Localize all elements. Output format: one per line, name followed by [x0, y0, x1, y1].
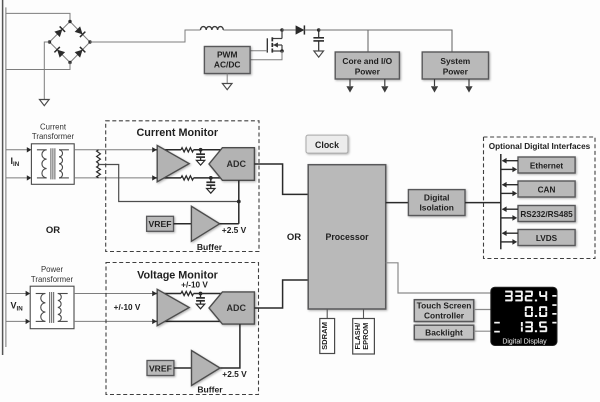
transistor Q1 MOSFET [281, 30, 283, 39]
capacitor C1 [318, 30, 320, 37]
svg-text:Buffer: Buffer [197, 242, 223, 252]
svg-text:Power: Power [41, 265, 64, 274]
digital display panel [491, 287, 557, 345]
wire R1 to ADC [194, 149, 224, 151]
dashed box Current Monitor [106, 121, 259, 252]
wire v-amp input top [152, 291, 157, 296]
burden resistor upper half [97, 150, 101, 163]
wire I_IN bottom [6, 177, 28, 179]
wire processor to display [386, 263, 491, 293]
node at MOSFET drain [280, 28, 284, 32]
svg-text:LVDS: LVDS [536, 234, 558, 243]
wire VREF1 to buffer [174, 223, 192, 225]
wire to Core and IO Power [367, 30, 369, 52]
ground below PWM [226, 74, 228, 84]
bridge rectifier frame [50, 22, 91, 63]
wire node to diode [282, 29, 296, 31]
System power output arrow 2 [468, 79, 470, 86]
node after R1 [199, 148, 203, 152]
svg-text:Current: Current [40, 123, 67, 132]
wire RS232/RS485 to bus upper [503, 208, 519, 210]
svg-text:+2.5 V: +2.5 V [222, 369, 247, 379]
power transformer T2 [30, 286, 74, 329]
buffer amplifier 2 [192, 351, 221, 386]
svg-text:VREF: VREF [149, 219, 172, 229]
processor U3 [308, 165, 386, 309]
bridge diode D3 [57, 50, 65, 58]
svg-text:SDRAM: SDRAM [320, 322, 329, 350]
AC input bus line 1 [2, 0, 4, 355]
resistor R3 [181, 291, 194, 295]
svg-text:+2.5 V: +2.5 V [222, 225, 247, 235]
bridge node top [68, 20, 71, 23]
diode D5 [296, 25, 305, 34]
block LVDS [518, 230, 575, 246]
node at MOSFET source [280, 49, 284, 53]
ground below bridge [40, 100, 50, 106]
svg-text:Touch Screen: Touch Screen [417, 301, 472, 311]
block Clock [306, 135, 348, 153]
svg-text:Clock: Clock [315, 140, 339, 150]
block FLASH/EPROM [353, 319, 375, 355]
wire VREF2 to buffer [174, 367, 192, 369]
ground below capacitor C1 [314, 51, 324, 57]
display reading 13.5 [540, 321, 547, 323]
AC input bus line 2 [5, 7, 7, 347]
resistor R1 [181, 148, 194, 152]
wire LVDS to bus lower [501, 241, 514, 243]
svg-text:CAN: CAN [538, 185, 556, 194]
wire bridge bottom to bus [6, 63, 70, 70]
block SDRAM [320, 319, 335, 354]
current transformer T1 [31, 144, 74, 185]
capacitor C2 to ground [200, 150, 202, 154]
wire ADC1 to vref node [238, 180, 240, 224]
op-amp A2 differential amplifier [157, 289, 189, 325]
wire amp input top [152, 147, 157, 152]
svg-text:ADC: ADC [227, 303, 247, 313]
wire gate to PWM [250, 50, 267, 52]
wire V_IN bottom [6, 320, 26, 322]
svg-text:System: System [440, 56, 470, 66]
wire processor to digital isolation [386, 202, 409, 204]
svg-text:PWM: PWM [217, 49, 237, 59]
wire digital isolation to interface bus [465, 202, 501, 204]
burden resistor lower half [97, 166, 101, 178]
block System Power [422, 52, 488, 79]
block Touch Screen Controller [414, 300, 473, 322]
wire CAN to bus lower [501, 192, 514, 194]
block PWM AC/DC [204, 47, 250, 74]
Core power output arrow 2 [384, 79, 386, 86]
op-amp A1 differential amplifier [157, 145, 189, 181]
svg-text:Isolation: Isolation [419, 202, 453, 212]
svg-text:Power: Power [355, 66, 381, 76]
wire I_IN top [6, 149, 28, 151]
capacitor C3 to ground [210, 178, 212, 182]
block Backlight [414, 325, 473, 339]
wire bridge right node to inductor [90, 30, 201, 42]
wire LVDS to bus upper [503, 232, 519, 234]
wire output node to power blocks [319, 30, 452, 52]
ADC U2 [209, 292, 254, 324]
wire ADC2 to vref node 2 [220, 324, 240, 368]
wire backlight to display [474, 330, 491, 332]
bridge node right [88, 40, 91, 43]
svg-text:EPROM: EPROM [361, 323, 370, 350]
wire resistor tap [98, 163, 100, 166]
svg-text:Core and I/O: Core and I/O [342, 56, 392, 66]
svg-text:Optional Digital Interfaces: Optional Digital Interfaces [489, 142, 591, 151]
block RS232/RS485 [518, 206, 575, 222]
block Ethernet [518, 157, 575, 173]
interface bus [500, 154, 502, 249]
wire CAN to bus upper [503, 184, 519, 186]
node after R2 [209, 176, 213, 180]
wire transformer output bottom [74, 177, 152, 179]
svg-text:Processor: Processor [325, 232, 369, 242]
wire V_IN top [6, 293, 26, 295]
svg-text:Power: Power [443, 66, 469, 76]
wire R3 to ADC [194, 293, 226, 295]
display annunciator dashes right [552, 295, 556, 297]
ADC U1 [209, 148, 254, 181]
wire amp input bottom [152, 175, 157, 180]
svg-text:AC/DC: AC/DC [214, 60, 241, 70]
block CAN [518, 181, 575, 197]
wire bridge left node to ground [44, 42, 49, 100]
bridge diode D1 [54, 29, 62, 37]
display annunciator dashes left [494, 322, 500, 324]
wire source to PWM [250, 51, 282, 60]
wire v-amp input bottom [152, 319, 157, 324]
output node [317, 28, 321, 32]
wire R2 to ADC [194, 177, 224, 179]
resistor R2 [181, 176, 194, 180]
wire power transformer out top [74, 293, 152, 295]
display reading 332.4 [539, 291, 541, 295]
Core power output arrow 1 [349, 79, 351, 86]
wire ADC1 output to processor [254, 164, 308, 194]
wire processor to FLASH [363, 309, 365, 319]
wire ADC2 output to processor [254, 280, 308, 308]
bridge node bottom [68, 61, 71, 64]
wire inductor to switch node [223, 29, 282, 31]
inductor L1 [201, 27, 224, 30]
node vref current [237, 200, 241, 204]
svg-text:ADC: ADC [227, 159, 247, 169]
block Digital Isolation [408, 190, 465, 216]
wire touch screen controller to display [474, 309, 491, 311]
node after R3 [199, 292, 203, 296]
svg-text:VREF: VREF [149, 363, 172, 373]
block Core and I/O Power [335, 52, 399, 79]
wire processor to SDRAM [326, 309, 328, 319]
svg-text:Current Monitor: Current Monitor [137, 127, 219, 139]
wire bus to bridge top [6, 13, 70, 21]
block VREF 2 [147, 361, 174, 376]
buffer amplifier 1 [191, 206, 219, 241]
svg-text:Transformer: Transformer [31, 275, 74, 284]
wire diode to output node [305, 29, 319, 31]
svg-text:+/-10 V: +/-10 V [114, 303, 141, 312]
capacitor C4 to ground [200, 294, 202, 298]
svg-text:Backlight: Backlight [425, 327, 463, 337]
block VREF 1 [147, 216, 174, 231]
svg-text:Digital: Digital [424, 192, 450, 202]
System power output arrow 1 [434, 79, 436, 86]
dashed box Optional Digital Interfaces [484, 137, 596, 259]
wire power transformer out bottom [74, 320, 152, 322]
bridge diode D4 [75, 50, 83, 58]
display reading 0.0 [540, 306, 547, 308]
bridge node left [48, 40, 51, 43]
wire RS232/RS485 to bus lower [501, 217, 514, 219]
bridge diode D2 [75, 26, 83, 34]
dashed box Voltage Monitor [106, 263, 259, 395]
svg-text:Ethernet: Ethernet [530, 161, 563, 170]
svg-text:RS232/RS485: RS232/RS485 [520, 210, 573, 219]
svg-text:Digital Display: Digital Display [502, 338, 547, 345]
wire Ethernet to bus lower [501, 168, 514, 170]
svg-text:OR: OR [46, 225, 60, 236]
wire buffer1 output [220, 223, 239, 225]
svg-text:+/-10 V: +/-10 V [181, 280, 208, 289]
svg-text:Controller: Controller [424, 310, 465, 320]
svg-text:Buffer: Buffer [197, 385, 223, 395]
svg-text:OR: OR [287, 232, 301, 243]
svg-text:Transformer: Transformer [32, 132, 75, 141]
wire transformer output top [74, 149, 152, 151]
wire Ethernet to bus upper [503, 160, 519, 162]
